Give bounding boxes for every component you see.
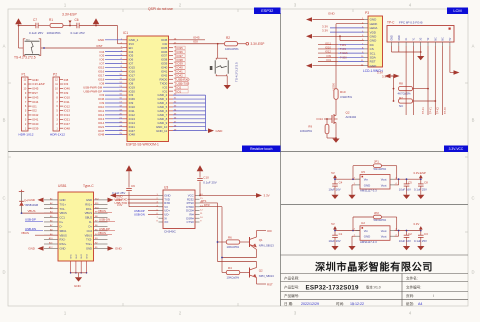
- svg-text:VBUS: VBUS: [60, 233, 68, 237]
- svg-text:D: D: [2, 270, 5, 275]
- svg-text:/: /: [433, 294, 434, 298]
- svg-text:USB-DP: USB-DP: [25, 218, 36, 222]
- svg-text:Vout: Vout: [381, 229, 387, 233]
- svg-text:IO10: IO10: [64, 95, 71, 99]
- svg-text:GND: GND: [28, 247, 36, 251]
- svg-text:C4: C4: [339, 181, 343, 185]
- svg-text:3.3V: 3.3V: [117, 203, 123, 207]
- svg-text:D4: D4: [24, 198, 28, 202]
- svg-text:RX2+: RX2+: [60, 242, 67, 246]
- svg-text:IO48: IO48: [98, 133, 105, 137]
- svg-text:VBUS: VBUS: [98, 209, 106, 213]
- svg-text:RX1-: RX1-: [86, 207, 92, 211]
- svg-text:0.1uF 25V: 0.1uF 25V: [203, 180, 216, 184]
- svg-text:IO21: IO21: [64, 118, 71, 122]
- svg-text:GND: GND: [370, 64, 378, 68]
- svg-text:GND: GND: [216, 129, 224, 133]
- svg-text:C: C: [2, 196, 5, 201]
- svg-text:IO9: IO9: [64, 91, 69, 95]
- svg-text:IO12: IO12: [64, 104, 71, 108]
- svg-text:Vout: Vout: [381, 178, 387, 182]
- svg-text:D+: D+: [60, 220, 64, 224]
- svg-text:深圳市晶彩智能有限公司: 深圳市晶彩智能有限公司: [315, 260, 433, 273]
- svg-text:R4: R4: [228, 266, 232, 270]
- svg-text:日 期:: 日 期:: [284, 301, 293, 306]
- svg-text:IO46: IO46: [64, 87, 71, 91]
- svg-text:Q2: Q2: [259, 268, 263, 272]
- svg-text:HDR-1X12: HDR-1X12: [50, 133, 65, 137]
- svg-text:C5: C5: [408, 181, 412, 185]
- svg-text:3.3V-VCC: 3.3V-VCC: [449, 147, 464, 151]
- svg-text:NC: NC: [399, 104, 403, 108]
- svg-text:页码:: 页码:: [406, 293, 414, 298]
- svg-text:3.3V-ESP: 3.3V-ESP: [251, 42, 265, 46]
- svg-text:T-RS: T-RS: [340, 43, 346, 47]
- svg-text:Q1: Q1: [259, 238, 263, 242]
- svg-text:10KΩ±5%: 10KΩ±5%: [47, 31, 61, 35]
- svg-text:C: C: [471, 196, 474, 201]
- svg-text:Q2: Q2: [346, 111, 350, 115]
- svg-text:IO13: IO13: [64, 109, 71, 113]
- svg-text:AMS1117-3.3: AMS1117-3.3: [360, 189, 377, 193]
- svg-text:C10: C10: [203, 175, 209, 179]
- svg-text:LCM: LCM: [453, 8, 461, 13]
- svg-text:RX2-: RX2-: [60, 238, 66, 242]
- svg-text:3.3V: 3.3V: [377, 70, 383, 74]
- svg-text:ESP32: ESP32: [261, 8, 273, 13]
- svg-text:50mΩ±5%: 50mΩ±5%: [374, 218, 387, 222]
- svg-text:CTS#: CTS#: [187, 220, 195, 224]
- svg-text:HDR-1X12: HDR-1X12: [19, 133, 34, 137]
- svg-text:Vout: Vout: [381, 235, 387, 239]
- svg-text:R1: R1: [49, 18, 53, 22]
- svg-text:10KΩ±5%: 10KΩ±5%: [227, 276, 240, 280]
- svg-text:GND_11: GND_11: [156, 129, 167, 133]
- svg-text:P3: P3: [365, 11, 369, 15]
- svg-text:TP-X2: TP-X2: [437, 107, 440, 114]
- svg-text:Vin: Vin: [364, 178, 369, 182]
- svg-text:R2: R2: [226, 36, 230, 40]
- svg-text:文件编号:: 文件编号:: [406, 285, 421, 290]
- svg-text:版本:V1.0: 版本:V1.0: [366, 285, 381, 290]
- svg-text:D-: D-: [60, 224, 63, 228]
- svg-text:R8: R8: [399, 82, 403, 86]
- svg-text:GND: GND: [364, 235, 370, 239]
- svg-text:B: B: [3, 118, 6, 123]
- svg-text:TX1+: TX1+: [60, 202, 67, 206]
- svg-text:RST: RST: [32, 91, 38, 95]
- svg-text:10KΩ±5%: 10KΩ±5%: [300, 129, 313, 133]
- svg-text:纸张:: 纸张:: [406, 301, 414, 306]
- svg-text:A: A: [472, 44, 475, 49]
- svg-text:3.3V-ESP: 3.3V-ESP: [413, 171, 426, 175]
- svg-text:时间:: 时间:: [336, 301, 344, 306]
- svg-text:NPN_S8013: NPN_S8013: [259, 274, 274, 278]
- svg-text:IO48: IO48: [64, 126, 71, 130]
- svg-text:TP-C: TP-C: [387, 20, 395, 24]
- svg-text:C6: C6: [75, 18, 79, 22]
- svg-text:产品型号:: 产品型号:: [284, 285, 299, 290]
- svg-text:10uF 16V: 10uF 16V: [329, 239, 341, 243]
- svg-text:TX2-: TX2-: [86, 238, 92, 242]
- svg-text:B: B: [472, 118, 475, 123]
- svg-text:USB-DN: USB-DN: [99, 218, 110, 222]
- svg-text:T-SDI: T-SDI: [340, 55, 347, 59]
- svg-text:GND: GND: [28, 198, 36, 202]
- svg-text:IC1: IC1: [123, 31, 128, 35]
- svg-text:A4: A4: [418, 302, 422, 306]
- svg-text:0.1uF 25V: 0.1uF 25V: [29, 31, 44, 35]
- svg-text:D: D: [471, 270, 474, 275]
- svg-text:FPC 6P 0.5 FG-B: FPC 6P 0.5 FG-B: [399, 20, 422, 24]
- svg-text:IO47: IO47: [64, 122, 71, 126]
- svg-text:GND: GND: [86, 247, 92, 251]
- svg-text:0.1uF 25V: 0.1uF 25V: [71, 31, 86, 35]
- svg-text:GND: GND: [392, 35, 394, 40]
- svg-text:IO8: IO8: [64, 78, 69, 82]
- svg-text:T-SCK: T-SCK: [340, 51, 348, 55]
- svg-text:R7: R7: [399, 96, 403, 100]
- svg-text:D-: D-: [89, 220, 92, 224]
- svg-text:IO48: IO48: [129, 133, 136, 137]
- svg-text:2022/12/29: 2022/12/29: [301, 302, 319, 306]
- svg-text:TP-Y1: TP-Y1: [429, 107, 432, 114]
- svg-text:U2: U2: [361, 221, 365, 225]
- svg-text:GND: GND: [86, 198, 92, 202]
- svg-text:RST: RST: [97, 44, 103, 48]
- svg-text:IO44: IO44: [32, 100, 39, 104]
- svg-text:CC2: CC2: [87, 229, 93, 233]
- svg-text:TX2+: TX2+: [86, 242, 93, 246]
- svg-text:3.3V-ESP: 3.3V-ESP: [32, 82, 45, 86]
- svg-text:TP-X1: TP-X1: [422, 107, 425, 114]
- svg-text:SBU1: SBU1: [60, 229, 68, 233]
- svg-text:10uF 16V: 10uF 16V: [329, 188, 341, 192]
- svg-text:ESP32-1732S019: ESP32-1732S019: [306, 284, 360, 291]
- svg-text:NC: NC: [443, 37, 445, 41]
- svg-text:AO3402: AO3402: [346, 115, 357, 119]
- svg-text:TS-4.2*3.2*2.5: TS-4.2*3.2*2.5: [14, 56, 36, 60]
- svg-text:IO11: IO11: [64, 100, 70, 104]
- svg-text:产品名称:: 产品名称:: [284, 275, 299, 280]
- svg-text:3.3V: 3.3V: [264, 194, 270, 198]
- svg-text:A: A: [3, 44, 6, 49]
- svg-text:IO2: IO2: [32, 109, 37, 113]
- svg-text:15:12:22: 15:12:22: [350, 302, 364, 306]
- svg-text:IO43: IO43: [32, 95, 39, 99]
- svg-text:IO14: IO14: [317, 117, 324, 121]
- svg-text:VBUS: VBUS: [21, 231, 29, 235]
- svg-text:IO41: IO41: [32, 118, 39, 122]
- svg-text:IO1: IO1: [32, 104, 37, 108]
- svg-text:GND: GND: [60, 247, 66, 251]
- svg-text:IO1: IO1: [326, 58, 331, 62]
- svg-text:CH340C: CH340C: [164, 229, 177, 233]
- svg-text:IO0: IO0: [193, 40, 198, 44]
- svg-text:CC1: CC1: [60, 216, 66, 220]
- svg-text:VBUS: VBUS: [85, 211, 93, 215]
- svg-text:GND: GND: [364, 183, 370, 187]
- svg-text:Vout: Vout: [381, 183, 387, 187]
- svg-text:SBU2: SBU2: [85, 216, 93, 220]
- svg-text:RTS: RTS: [201, 199, 207, 203]
- svg-text:IO45: IO45: [32, 87, 39, 91]
- svg-text:AMS1117-3.3: AMS1117-3.3: [360, 240, 377, 244]
- svg-text:5V: 5V: [331, 222, 335, 226]
- svg-text:R9: R9: [308, 125, 312, 129]
- svg-text:U5: U5: [361, 170, 365, 174]
- svg-text:R10: R10: [340, 90, 346, 94]
- svg-text:DTR: DTR: [204, 203, 210, 207]
- svg-text:C7: C7: [33, 18, 37, 22]
- svg-text:C1: C1: [339, 232, 343, 236]
- svg-text:IO42: IO42: [32, 113, 39, 117]
- svg-text:C2: C2: [408, 232, 412, 236]
- svg-text:3.9Ω±5%: 3.9Ω±5%: [340, 95, 352, 99]
- svg-text:VBUS: VBUS: [85, 233, 93, 237]
- svg-text:GND: GND: [98, 38, 104, 42]
- svg-text:P1: P1: [22, 73, 26, 77]
- svg-text:NPN_S8013: NPN_S8013: [259, 244, 274, 248]
- svg-text:IO14: IO14: [64, 113, 71, 117]
- svg-text:GND: GND: [115, 247, 123, 251]
- svg-text:IO39: IO39: [32, 126, 39, 130]
- svg-text:C8: C8: [424, 181, 428, 185]
- svg-text:文件名:: 文件名:: [406, 275, 418, 280]
- svg-text:YM5810GB: YM5810GB: [24, 203, 38, 207]
- svg-text:3.3V: 3.3V: [322, 29, 328, 33]
- svg-text:4K7Ω±5%: 4K7Ω±5%: [398, 92, 411, 96]
- svg-text:10uF 16V: 10uF 16V: [399, 188, 411, 192]
- svg-text:JP2: JP2: [374, 211, 379, 215]
- svg-text:TS-4.2*3.2*2.5: TS-4.2*3.2*2.5: [235, 62, 239, 82]
- svg-text:IO3: IO3: [64, 82, 69, 86]
- svg-text:GND: GND: [60, 198, 66, 202]
- svg-text:C3: C3: [424, 232, 428, 236]
- svg-text:JP1: JP1: [374, 160, 379, 164]
- svg-text:VBUS: VBUS: [60, 211, 68, 215]
- svg-text:USB1: USB1: [58, 184, 67, 188]
- svg-text:10KΩ±5%: 10KΩ±5%: [225, 47, 239, 51]
- svg-text:TP-Y2: TP-Y2: [444, 107, 447, 114]
- svg-text:RX1+: RX1+: [85, 202, 92, 206]
- svg-text:TX1-: TX1-: [60, 207, 66, 211]
- svg-text:NC: NC: [435, 37, 437, 41]
- svg-text:GND: GND: [74, 284, 82, 288]
- svg-text:QSPI do not use: QSPI do not use: [148, 7, 173, 11]
- svg-text:50mΩ±5%: 50mΩ±5%: [374, 167, 387, 171]
- svg-text:5V: 5V: [450, 37, 452, 40]
- svg-text:RST: RST: [267, 282, 273, 286]
- svg-text:GND: GND: [399, 35, 401, 40]
- svg-text:T-CS: T-CS: [340, 47, 346, 51]
- svg-text:C9: C9: [131, 184, 135, 188]
- svg-text:Type-C: Type-C: [83, 184, 94, 188]
- svg-text:USB-DN: USB-DN: [134, 213, 145, 217]
- svg-text:VBUS: VBUS: [98, 231, 106, 235]
- svg-text:ESP32-S3-WROOM-1: ESP32-S3-WROOM-1: [126, 143, 159, 147]
- svg-text:P2: P2: [53, 73, 57, 77]
- svg-text:5V: 5V: [331, 171, 335, 175]
- svg-text:GND: GND: [32, 78, 38, 82]
- svg-text:U3: U3: [164, 186, 168, 190]
- svg-text:3.3V-ESP: 3.3V-ESP: [62, 12, 77, 16]
- svg-text:Vin: Vin: [364, 229, 369, 233]
- svg-text:VBUS: VBUS: [28, 209, 36, 213]
- svg-text:0.1uF 25V: 0.1uF 25V: [414, 188, 427, 192]
- svg-text:3.3V: 3.3V: [413, 222, 419, 226]
- svg-text:IO40: IO40: [32, 122, 39, 126]
- svg-text:R6: R6: [228, 236, 232, 240]
- svg-text:产品编号:: 产品编号:: [284, 293, 299, 298]
- svg-text:IO0: IO0: [267, 229, 272, 233]
- svg-text:Resistive touch: Resistive touch: [250, 147, 273, 151]
- svg-text:10KΩ±5%: 10KΩ±5%: [227, 245, 240, 249]
- svg-text:0.1uF 25V: 0.1uF 25V: [414, 239, 427, 243]
- svg-text:GND: GND: [328, 11, 336, 15]
- svg-text:10uF 16V: 10uF 16V: [399, 239, 411, 243]
- svg-text:D+: D+: [88, 224, 92, 228]
